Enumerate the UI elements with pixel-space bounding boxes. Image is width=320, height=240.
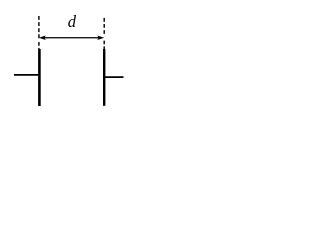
right arrowhead: [97, 36, 104, 41]
left capacitor plate: [38, 49, 41, 106]
left lead wire: [14, 74, 39, 76]
right lead wire: [104, 76, 123, 78]
right capacitor plate: [103, 49, 105, 106]
right dashed extension line (upper run): [103, 18, 105, 34]
left dashed extension line (lower run): [38, 42, 40, 49]
left dashed extension line (upper run): [38, 16, 40, 38]
svg-text:d: d: [68, 12, 77, 31]
dimension arrow shaft: [44, 37, 100, 39]
right dashed extension line (lower run): [103, 41, 105, 49]
left arrowhead: [39, 36, 46, 41]
